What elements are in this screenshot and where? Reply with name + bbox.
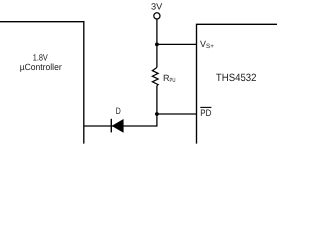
svg-text:1.8V: 1.8V — [33, 52, 48, 62]
wire: 3V terminal down to resistor top — [156, 20, 158, 68]
junction dot at PD net tee — [155, 112, 159, 116]
wire: supply tee to Vs+ pin — [156, 43, 196, 45]
microcontroller box U1 (1.8V µController) — [0, 22, 84, 144]
svg-text:3V: 3V — [151, 1, 162, 11]
svg-text:D: D — [116, 106, 121, 116]
pin label Vs+ — [200, 39, 214, 50]
wire: PD net tee to PD pin — [156, 113, 196, 115]
diode D symbol (cathode bar + triangle, pointing left) — [111, 119, 123, 133]
svg-text:THS4532: THS4532 — [216, 72, 257, 84]
svg-text:µController: µController — [20, 62, 62, 72]
amplifier box U2 (THS4532) — [197, 24, 280, 143]
pin label PD (active low, overline) — [200, 107, 211, 118]
junction dot at 3V / Vs+ tee — [155, 43, 159, 47]
resistor R_PU (pull-up) — [152, 68, 175, 86]
wire: resistor bottom down to PD net corner — [84, 86, 157, 126]
svg-text:PD: PD — [200, 107, 211, 118]
3V supply terminal circle — [154, 13, 160, 19]
